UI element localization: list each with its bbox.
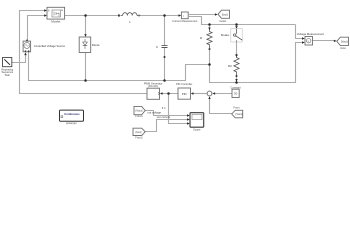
meter VM (Voltage Measurement) block	[305, 37, 313, 46]
svg-text:From: From	[233, 105, 239, 109]
arrowhead into Goto Vout	[334, 40, 337, 42]
block powergui	[60, 110, 84, 121]
block PWM Generator (DC-DC)	[147, 88, 160, 99]
arrowhead into scope in2	[187, 118, 190, 120]
svg-text:PID Controller: PID Controller	[176, 82, 192, 86]
svg-text:[Vout]: [Vout]	[236, 112, 243, 116]
wire CM minus to top bus	[189, 17, 296, 25]
arrowhead into Mosfet g	[44, 9, 47, 11]
arrowhead into Mosfet d	[44, 14, 47, 16]
transistor Mosfet block	[47, 7, 65, 19]
arrowhead into breaker top	[235, 26, 237, 29]
source RSS (Repeating Sequence Stair) block	[3, 58, 12, 67]
junction node: mosfet-diode	[84, 14, 87, 17]
junction node: R2-rail	[235, 81, 238, 84]
junction node: PID-PWM-scope	[167, 92, 170, 95]
wire diode branch	[85, 16, 87, 37]
wire breaker to R2	[236, 42, 238, 55]
wire capacitor bottom to rail	[164, 48, 166, 81]
goto tag Goto1 [Iout]	[218, 10, 230, 18]
wire From Vout to sum bottom	[210, 98, 232, 113]
wire R load top	[209, 25, 211, 31]
svg-text:Controlled Voltage Source: Controlled Voltage Source	[34, 44, 66, 48]
wire inductor to Current Measurement	[141, 15, 179, 17]
svg-text:From1: From1	[135, 114, 143, 118]
svg-text:Stair: Stair	[5, 73, 10, 77]
svg-text:Voltage Measurement: Voltage Measurement	[297, 32, 324, 36]
arrowhead into scope in3	[187, 122, 190, 124]
arrowhead into PWM right	[160, 92, 163, 94]
wire diode bottom to rail	[85, 53, 87, 81]
resistor R2	[234, 57, 239, 76]
svg-text:From2: From2	[135, 136, 143, 140]
wire left ground rail from CVS minus	[29, 52, 210, 81]
junction node: bus-R	[208, 23, 211, 26]
scope block	[190, 113, 204, 128]
svg-text:Mosfet: Mosfet	[51, 20, 60, 24]
svg-text:Breaker: Breaker	[221, 34, 230, 37]
inductor L	[120, 13, 141, 17]
controller PID block	[178, 88, 191, 99]
wire sum to PID	[193, 93, 207, 95]
label Repeating Sequence Stair	[1, 67, 13, 77]
wire R2 bottom to rail	[236, 76, 238, 83]
wire node A: Mosfet s to inductor	[65, 15, 119, 17]
capacitor C	[162, 45, 168, 47]
junction node: diode-rail	[84, 79, 87, 82]
wire RSS to CVS input	[12, 55, 26, 63]
svg-text:Scope: Scope	[193, 127, 201, 131]
arrowhead into CVS input (up)	[24, 52, 26, 55]
wire From1 to scope in1	[145, 111, 187, 116]
source CVS (Controlled Voltage Source) block	[23, 40, 31, 52]
svg-text:Current Measurement: Current Measurement	[172, 19, 198, 23]
svg-text:Goto: Goto	[340, 46, 346, 50]
label PWM Generator (DC-DC)	[144, 81, 163, 88]
wire From2 to scope in2	[145, 120, 187, 132]
svg-text:PID: PID	[182, 92, 188, 96]
svg-text:[Iout]: [Iout]	[222, 12, 228, 16]
svg-text:m: m	[61, 9, 63, 12]
from tag From [Vout] feedback	[232, 110, 243, 118]
junction node: cap bottom port	[164, 56, 166, 58]
wire Constant to sum	[215, 93, 232, 95]
arrowhead into VM plus	[302, 37, 305, 39]
junction node: rail-R vertical	[208, 63, 211, 66]
svg-text:out voltage: out voltage	[147, 110, 161, 114]
svg-text:Constant: Constant	[230, 85, 241, 89]
svg-text:[Vout]: [Vout]	[136, 109, 143, 113]
meter CM (Current Measurement) block	[181, 12, 188, 19]
wire breaker top	[236, 25, 238, 29]
svg-text:R2: R2	[228, 64, 232, 68]
junction node: cap-rail	[163, 79, 166, 82]
junction node: inductor-capacitor	[163, 14, 166, 17]
svg-text:Diode: Diode	[92, 43, 100, 47]
arrowhead into R2 top	[235, 55, 237, 58]
from tag From1 [Vout]	[134, 106, 145, 114]
svg-text:5.4: 5.4	[162, 106, 166, 110]
arrowhead into Current Measurement	[179, 14, 182, 16]
wire CM i output to Goto1	[189, 14, 215, 16]
arrowhead into R top	[208, 28, 210, 31]
wire PID to PWM and scope branch	[162, 94, 188, 124]
wire bus to VM plus	[296, 25, 303, 39]
wire VM output to Goto	[313, 40, 335, 42]
switch Breaker	[231, 29, 243, 42]
svg-text:Goto1: Goto1	[219, 19, 227, 23]
wire gate: PWM output to Mosfet g	[20, 11, 148, 94]
arrowhead into sum right	[212, 92, 215, 94]
junction node: bus-breaker	[235, 23, 238, 26]
from tag From2 [Iout]	[133, 128, 145, 135]
arrowhead into scope in1	[187, 114, 190, 116]
arrowhead into diode top	[84, 34, 86, 37]
svg-text:(DC-DC): (DC-DC)	[148, 84, 158, 88]
svg-text:Continuous: Continuous	[64, 112, 80, 116]
arrowhead into sum bottom (up)	[208, 96, 210, 99]
svg-text:powergui: powergui	[66, 121, 77, 125]
wire R load bottom / right rail to VM minus	[210, 43, 303, 83]
sum block	[207, 91, 212, 96]
constant block 30	[232, 89, 239, 97]
arrowhead into PID right	[191, 92, 194, 94]
wire capacitor top branch	[164, 16, 166, 46]
wire drain: CVS plus up to Mosfet	[28, 16, 45, 42]
junction node: R bottom port	[209, 48, 211, 50]
arrowhead into Goto1	[215, 13, 218, 15]
arrowhead into inductor	[118, 14, 121, 16]
diode D1 block	[79, 37, 91, 53]
junction node: R2 top port	[236, 54, 238, 56]
goto tag Goto [Vout]	[337, 37, 349, 45]
arrowhead into VM minus	[302, 41, 305, 43]
svg-text:[Iout]: [Iout]	[136, 130, 142, 134]
svg-text:30: 30	[234, 92, 238, 96]
svg-text:[Vout]: [Vout]	[341, 39, 348, 43]
resistor R	[207, 30, 212, 49]
arrowhead R2 bottom to rail	[235, 79, 237, 82]
junction node: R2 bottom port	[236, 75, 238, 77]
svg-text:out current: out current	[157, 115, 171, 119]
